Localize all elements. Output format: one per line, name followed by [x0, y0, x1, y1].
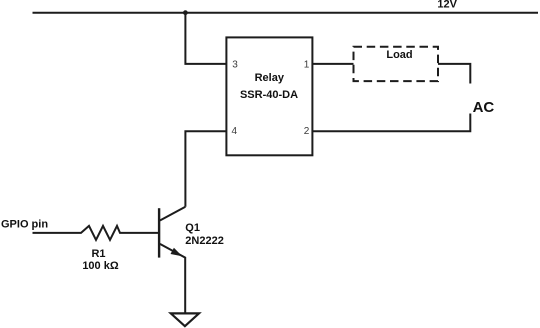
svg-text:4: 4 — [232, 126, 238, 137]
transistor Q1 base bar — [158, 208, 160, 257]
resistor R1 — [33, 226, 160, 240]
svg-text:12V: 12V — [437, 0, 457, 11]
svg-text:R1: R1 — [91, 248, 105, 260]
wire load to AC terminal (top hook) — [438, 64, 470, 84]
transistor Q1 emitter arrow — [171, 248, 183, 256]
svg-text:2: 2 — [304, 126, 310, 137]
node junction dot — [183, 10, 188, 15]
svg-text:1: 1 — [304, 60, 310, 71]
wire junction to relay pin 3 — [185, 13, 226, 64]
svg-text:100 kΩ: 100 kΩ — [82, 260, 119, 272]
relay U1 box — [226, 37, 312, 155]
wire relay pin 1 to load — [312, 63, 353, 65]
svg-text:GPIO pin: GPIO pin — [1, 219, 48, 231]
svg-text:Load: Load — [386, 49, 412, 61]
svg-text:Q1: Q1 — [185, 222, 200, 234]
svg-text:AC: AC — [473, 99, 495, 116]
wire 12V top rail — [33, 12, 539, 14]
wire collector diagonal — [160, 207, 186, 221]
wire relay pin 4 to collector — [185, 131, 226, 207]
svg-text:3: 3 — [232, 60, 238, 71]
svg-text:2N2222: 2N2222 — [185, 235, 224, 247]
svg-text:Relay: Relay — [255, 72, 285, 84]
load box (dashed) — [354, 47, 439, 81]
ground — [171, 313, 199, 326]
wire relay pin 2 to AC terminal (bottom) — [312, 114, 470, 132]
wire emitter diagonal and down to ground — [160, 244, 185, 314]
svg-text:SSR-40-DA: SSR-40-DA — [240, 89, 298, 101]
